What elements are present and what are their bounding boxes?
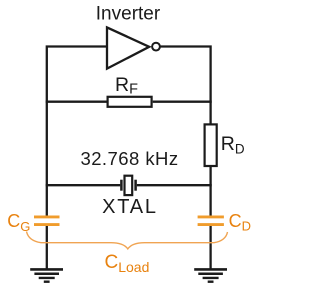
wire: crystal row, left rail to crystal	[46, 184, 121, 186]
wire: right rail middle (R_D bottom to C_D top plate)	[209, 165, 211, 216]
ground (left)	[30, 269, 63, 281]
svg-text:32.768 kHz: 32.768 kHz	[80, 148, 178, 169]
capacitor C_D: top plate	[198, 215, 224, 218]
wire: R_F row, resistor to right rail	[153, 101, 212, 103]
brace for C_Load (orange underbrace from C_G to C_D)	[27, 232, 228, 249]
crystal XTAL: right electrode plate	[134, 180, 137, 191]
wire: crystal row, crystal to right rail	[137, 184, 212, 186]
ground (right)	[194, 269, 227, 281]
wire: top-left corner, inverter input to left rail, down to C_G top plate	[47, 47, 107, 216]
svg-text:Inverter: Inverter	[96, 4, 161, 25]
inverter U1 (triangle)	[107, 27, 149, 68]
capacitor C_G: bottom plate	[34, 223, 60, 226]
resistor R_F (box)	[108, 97, 152, 107]
wire: inverter output bubble to top-right corner, down right rail to R_D	[160, 47, 210, 126]
wire: R_F row, left rail to resistor	[46, 101, 107, 103]
capacitor C_D: bottom plate	[198, 223, 224, 226]
crystal XTAL: quartz body (center rectangle)	[125, 176, 133, 195]
crystal XTAL: left electrode plate	[120, 180, 123, 191]
capacitor C_G: top plate	[34, 215, 60, 218]
svg-text:XTAL: XTAL	[102, 196, 158, 218]
wire: right rail lower (C_D bottom plate down to ground)	[209, 226, 211, 270]
wire: left rail lower (C_G bottom plate down to ground)	[46, 226, 48, 270]
inverter output bubble	[152, 43, 160, 51]
resistor R_D (box)	[205, 124, 217, 166]
